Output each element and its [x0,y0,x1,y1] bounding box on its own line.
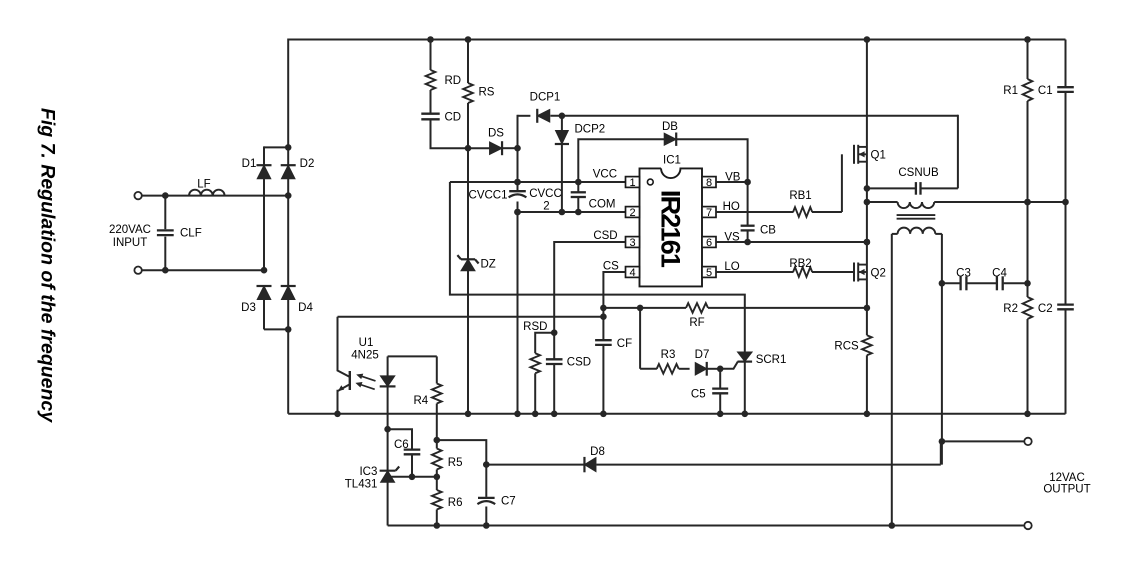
wire left riser to bridge [287,39,289,148]
wire CS to opto [338,316,604,318]
resistor R1 [1023,79,1033,101]
svg-text:7: 7 [706,207,712,219]
svg-text:CSNUB: CSNUB [898,167,939,179]
svg-text:4N25: 4N25 [351,350,379,362]
svg-text:R2: R2 [1003,303,1018,315]
svg-text:IR2161: IR2161 [655,190,685,268]
svg-text:12VAC: 12VAC [1049,472,1085,484]
capacitor C4 [997,276,1003,290]
svg-text:U1: U1 [359,337,374,349]
wire CD bottom corner [431,121,469,149]
capacitor C3 [961,276,967,290]
wire top rail (rectified + bus) [288,36,1065,43]
label RB1 [789,190,811,202]
label C4 [992,268,1007,280]
svg-text:RF: RF [689,317,704,329]
terminal AC input top [134,192,141,199]
wire secondary left lead [891,234,893,526]
wire R3 riser [640,308,657,369]
wire COM bottom rail [288,411,1065,418]
terminal 12VAC output top [1024,438,1031,445]
svg-text:D4: D4 [298,302,313,314]
label D3 [241,302,256,314]
wire RS-DZ [465,103,472,259]
wire LO [716,271,855,273]
wire LED to R4 [388,355,437,357]
diode D3 [257,286,272,329]
label D8 [590,446,605,458]
resistor RCS [862,335,872,414]
label COM pin2 [589,199,616,211]
transistor Q1 [854,145,867,164]
svg-text:RD: RD [445,75,462,87]
resistor R3 [657,364,679,374]
svg-text:CB: CB [760,225,776,237]
svg-text:1: 1 [629,177,635,189]
pin 7 box [702,207,716,219]
svg-text:D1: D1 [242,158,257,170]
label DB [662,121,678,133]
label D2 [300,158,315,170]
svg-text:INPUT: INPUT [113,237,148,249]
svg-text:RCS: RCS [834,341,859,353]
label Q2 [871,268,886,280]
wire COM line [514,209,625,216]
wire CS net [600,272,625,339]
svg-text:COM: COM [589,199,616,211]
wire RS top [467,40,469,84]
wire RD-CD [430,90,432,113]
label R2 [1003,303,1018,315]
wire AC line top [142,192,292,199]
label 12VAC OUTPUT [1043,472,1090,496]
shunt regulator IC3 TL431 [380,467,437,526]
diode D2 [281,147,296,286]
svg-text:IC1: IC1 [663,155,681,167]
svg-text:2: 2 [629,207,635,219]
wire bridge top [264,144,292,166]
wire half-bridge column [864,40,871,336]
resistor RB1 [793,207,812,217]
svg-text:IC3: IC3 [359,466,377,478]
caption Fig 7 [37,108,59,423]
thyristor SCR1 [720,352,752,414]
diode D7 [679,362,724,376]
transformer secondary [892,228,942,234]
label DCP2 [575,124,606,136]
svg-text:C7: C7 [501,496,516,508]
wire CSD net [551,242,626,359]
op-amp IC1 body (IR2161) [640,168,703,286]
svg-text:D3: D3 [241,302,256,314]
label HO pin7 [723,201,740,213]
wire DCP1 line [518,113,958,150]
svg-text:8: 8 [706,177,712,189]
wire bridge bottom join [264,326,292,333]
label RS [479,87,495,99]
svg-text:Q1: Q1 [871,150,886,162]
svg-text:C2: C2 [1038,303,1053,315]
svg-text:R1: R1 [1003,85,1018,97]
label 220VAC INPUT [109,224,151,249]
label C5 [691,389,706,401]
resistor RS [463,83,473,103]
wire HO [716,154,842,212]
label VCC pin1 [593,169,617,181]
optocoupler U1 transistor [338,317,350,414]
label CD [445,112,462,124]
capacitor CD [421,114,439,120]
resistor R2 [1023,297,1033,319]
svg-text:CSD: CSD [593,230,617,242]
label RCS [834,341,859,353]
svg-text:DS: DS [488,128,504,140]
svg-text:D2: D2 [300,158,315,170]
label CSD pin3 [593,230,617,242]
label Q1 [871,150,886,162]
wire D8 line [486,441,941,464]
svg-text:C5: C5 [691,389,706,401]
label LF [197,179,210,191]
svg-text:SCR1: SCR1 [756,354,787,366]
svg-text:CLF: CLF [180,228,202,240]
wire CVCC1 column [514,148,521,414]
resistor R5 [432,440,442,480]
svg-text:220VAC: 220VAC [109,224,151,236]
label CF [617,338,632,350]
label DZ [481,259,496,271]
label CSD [567,357,591,369]
label C6 [394,439,409,451]
resistor R4 [432,356,442,440]
label R6 [448,497,463,509]
svg-text:3: 3 [629,237,635,249]
svg-text:R5: R5 [448,457,463,469]
pin 2 box [626,207,640,219]
terminal AC input bottom [134,267,141,274]
capacitor C6 [384,426,420,480]
label C7 [501,496,516,508]
label VS pin6 [724,232,740,244]
label CVCC1 [469,190,508,202]
svg-text:C4: C4 [992,268,1007,280]
wire to output top [942,440,1025,442]
svg-text:CVCC: CVCC [529,188,562,200]
label IC1 [663,155,681,167]
label SCR1 [756,354,787,366]
svg-text:2: 2 [543,201,549,213]
label R1 [1003,85,1018,97]
svg-text:Fig 7. Regulation of the frequ: Fig 7. Regulation of the frequency [37,108,59,423]
capacitor CF [595,340,612,414]
svg-text:CVCC1: CVCC1 [469,190,508,202]
pin 3 box [626,237,640,249]
label R4 [414,395,429,407]
label D7 [695,349,710,361]
optocoupler U1 LED [380,356,396,470]
pin 8 box [702,177,716,189]
label R3 [661,349,676,361]
inductor LF [189,190,225,196]
capacitor CSD [546,359,563,414]
label CLF [180,228,202,240]
transistor Q2 [854,263,867,282]
svg-text:6: 6 [706,237,712,249]
label U1 [351,337,379,362]
svg-text:DCP2: DCP2 [575,124,606,136]
label CSNUB [898,167,939,179]
capacitor C7 [477,465,495,529]
label LO pin5 [724,261,739,273]
svg-text:C3: C3 [956,268,971,280]
svg-text:Q2: Q2 [871,268,886,280]
diode D1 [257,165,272,270]
svg-text:TL431: TL431 [345,479,378,491]
label C3 [956,268,971,280]
svg-text:CF: CF [617,338,632,350]
svg-text:CD: CD [445,112,462,124]
svg-text:R3: R3 [661,349,676,361]
svg-text:RB2: RB2 [789,258,811,270]
label R5 [448,457,463,469]
terminal 12VAC output bottom [1024,522,1031,529]
pin 4 box [626,267,640,279]
capacitor C5 [712,369,728,414]
svg-text:5: 5 [706,267,712,279]
label D4 [298,302,313,314]
diode D8 [584,457,596,472]
capacitor CSNUB [867,115,958,195]
svg-text:DB: DB [662,121,678,133]
label DCP1 [530,92,561,104]
capacitor CVCC1 [509,191,527,197]
diode D4 [281,286,296,414]
svg-text:RSD: RSD [523,321,547,333]
label C1 [1038,85,1053,97]
wire RF line [603,305,867,312]
wire VB [716,179,751,186]
resistor R6 [432,477,442,529]
resistor RD [426,70,436,90]
label RB2 [789,258,811,270]
svg-text:DCP1: DCP1 [530,92,561,104]
diode DB [664,133,676,146]
capacitor C1 [1057,40,1074,202]
wire VS [716,239,870,246]
label RD [445,75,462,87]
label IC3 TL431 [345,466,378,491]
wire VCC to SCR anode [450,182,745,353]
wire VCC line [450,179,626,186]
svg-text:RB1: RB1 [789,190,811,202]
svg-text:CS: CS [603,260,619,272]
zener DZ [457,255,478,414]
label IR2161 [655,190,685,268]
wire secondary right lead [939,234,946,465]
diode DCP1 [537,109,550,123]
svg-text:LF: LF [197,179,210,191]
transformer core [897,215,936,219]
optocoupler light arrows [355,374,375,390]
capacitor CB [741,182,755,242]
label CVCC2 [529,188,562,213]
resistor RB2 [793,267,812,277]
transformer primary [867,199,1069,208]
svg-text:C6: C6 [394,439,409,451]
wire bottom output line [388,522,1025,529]
wire AC line bottom [142,267,268,274]
capacitor C2 [1057,203,1074,414]
capacitor CVCC2 [571,182,586,212]
svg-text:4: 4 [629,267,635,279]
svg-text:CSD: CSD [567,357,591,369]
resistor RSD [530,333,554,414]
label RSD [523,321,547,333]
label CS pin4 [603,260,619,272]
svg-text:D8: D8 [590,446,605,458]
svg-text:R4: R4 [414,395,429,407]
pin 1 box [626,177,640,189]
pin 6 box [702,237,716,249]
svg-text:R6: R6 [448,497,463,509]
svg-text:D7: D7 [695,349,710,361]
svg-text:C1: C1 [1038,85,1053,97]
label RF [689,317,704,329]
svg-text:OUTPUT: OUTPUT [1043,484,1090,496]
wire R1R2 column [1024,40,1031,414]
wire C3C4 line [942,280,1031,287]
label C2 [1038,303,1053,315]
pin 5 box [702,267,716,279]
capacitor CLF [157,196,174,271]
label DS [488,128,504,140]
label CB [760,225,776,237]
label VB pin8 [725,172,741,184]
svg-text:VCC: VCC [593,169,617,181]
svg-text:RS: RS [479,87,495,99]
resistor RF [686,303,708,313]
label D1 [242,158,257,170]
svg-text:DZ: DZ [481,259,496,271]
wire RD top [430,40,432,71]
wire R4-R5 junction [434,437,490,468]
wire DB line [578,139,747,182]
diode DS [468,141,521,155]
diode DCP2 [555,116,569,212]
